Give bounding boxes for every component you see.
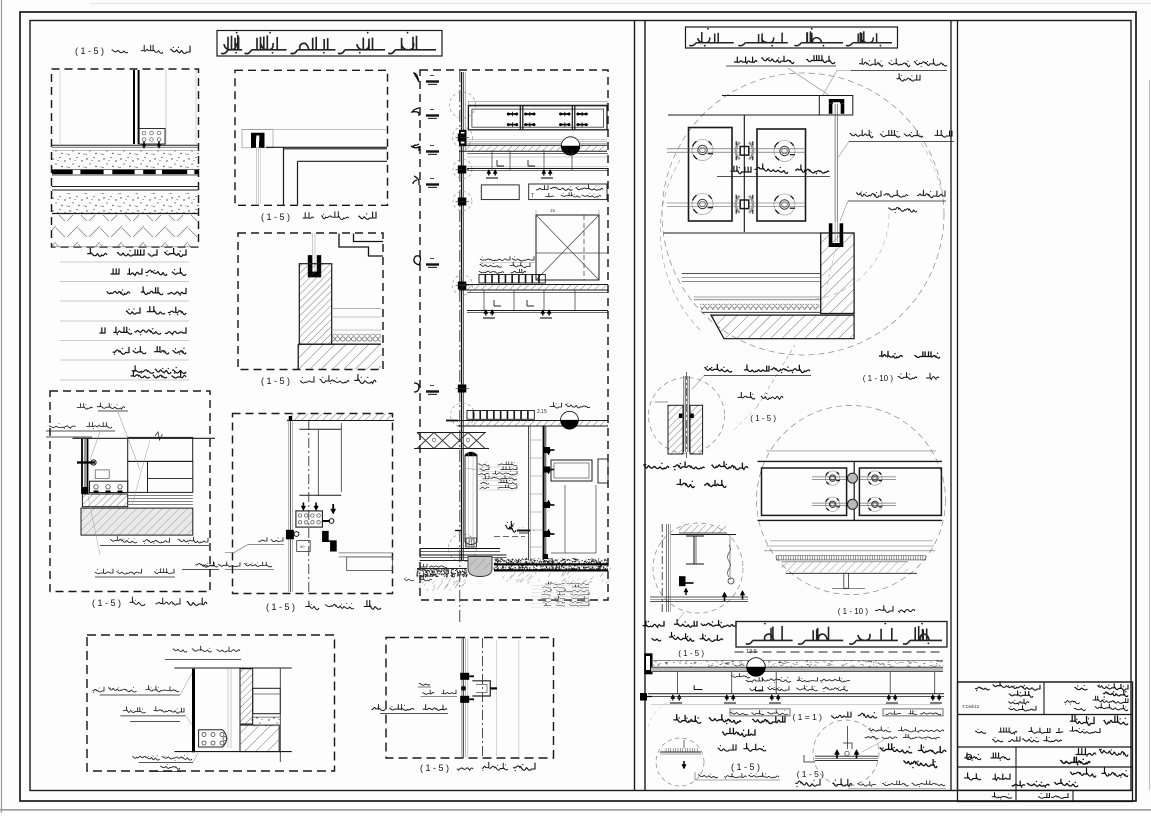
svg-text:( 1 - 5 ): ( 1 - 5 ) bbox=[678, 649, 704, 658]
svg-text:15: 15 bbox=[550, 208, 556, 213]
svg-text:T.Disk12: T.Disk12 bbox=[962, 704, 980, 709]
svg-text:( 1 - 5 ): ( 1 - 5 ) bbox=[261, 376, 290, 386]
svg-text:( 1 - 5 ): ( 1 - 5 ) bbox=[92, 598, 121, 608]
svg-text:50: 50 bbox=[300, 544, 305, 549]
svg-text:. ..: . .. bbox=[519, 524, 524, 529]
svg-text:( 1 - 5 ): ( 1 - 5 ) bbox=[750, 414, 776, 423]
svg-text:( 1 - 5 ): ( 1 - 5 ) bbox=[797, 769, 825, 779]
svg-text:( 1 - 5 ): ( 1 - 5 ) bbox=[75, 46, 104, 56]
svg-text:. ..: . .. bbox=[530, 527, 536, 533]
svg-text:T: T bbox=[531, 194, 534, 200]
svg-text:2.15: 2.15 bbox=[537, 409, 547, 415]
svg-text:( 1 - 5 ): ( 1 - 5 ) bbox=[266, 602, 295, 612]
svg-text:( 1 - 5 ): ( 1 - 5 ) bbox=[261, 212, 290, 222]
svg-text:( 1 - 5 ): ( 1 - 5 ) bbox=[420, 763, 449, 773]
svg-text:( 1 - 5 ): ( 1 - 5 ) bbox=[731, 762, 760, 772]
svg-text:( 1 = 1 ): ( 1 = 1 ) bbox=[792, 712, 822, 722]
svg-text:( 1 - 10 ): ( 1 - 10 ) bbox=[838, 607, 869, 616]
svg-text:( 1 - 10 ): ( 1 - 10 ) bbox=[863, 374, 894, 383]
